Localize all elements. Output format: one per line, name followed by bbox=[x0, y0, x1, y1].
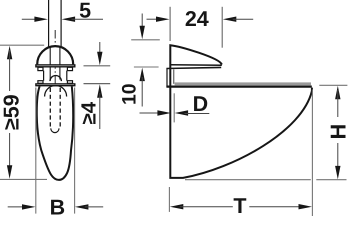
left view: screw slot lines inside dome bbox=[50, 47, 60, 80]
dimension T: line with inside arrows pointing outward bbox=[170, 204, 312, 209]
dimension 24: arrows outside bbox=[147, 17, 254, 22]
svg-text:H: H bbox=[327, 124, 350, 140]
left view: vertical centerline (dash-dot) bbox=[54, 30, 56, 166]
dimension &ge;59: top extension line bbox=[0, 44, 44, 46]
dimension D: extension line bbox=[173, 93, 175, 122]
dimension 24: left extension line bbox=[169, 7, 171, 41]
side view: body top edge bbox=[166, 85, 311, 87]
side view: body outline with concave underside curve bbox=[170, 66, 312, 178]
left view: small arch in neck bbox=[50, 76, 61, 82]
left view: body bullet outline bbox=[37, 86, 73, 180]
left view: grommet dome behind bar2 bbox=[45, 86, 67, 97]
dimension &ge;4: arrows outside bbox=[97, 42, 102, 129]
dimension D: right arrow pointing left + leader underline bbox=[175, 110, 210, 115]
svg-text:B: B bbox=[50, 196, 66, 217]
dimension 5: extension = stem lines; arrows outside bbox=[22, 17, 103, 22]
dimension T: right extension line bbox=[311, 90, 313, 217]
dimension H: top extension line bbox=[319, 84, 347, 86]
dimension T: left extension line bbox=[168, 187, 170, 212]
dimension 10: arrows outside bbox=[140, 14, 145, 107]
dimension &ge;4: upper extension tick bbox=[84, 65, 111, 67]
left view: tongue/stem lines (width 5) bbox=[49, 0, 62, 48]
left view: neck walls bbox=[44, 71, 67, 81]
svg-text:T: T bbox=[233, 194, 246, 216]
side view: slot top line bbox=[166, 67, 221, 68]
dimension &ge;59: vertical line with inside arrows bbox=[7, 46, 12, 179]
svg-text:D: D bbox=[193, 92, 209, 116]
dimension H: vertical line with inside arrows bbox=[335, 86, 340, 180]
side view: top jaw fin bbox=[170, 45, 222, 66]
svg-text:5: 5 bbox=[79, 0, 91, 22]
dimension H: bottom extension line bbox=[185, 179, 347, 181]
dimension B: right extension line bbox=[74, 88, 76, 214]
svg-text:≥59: ≥59 bbox=[0, 94, 24, 130]
left view: dome cap bbox=[37, 46, 73, 64]
dimension B: left extension line bbox=[35, 88, 37, 214]
svg-text:24: 24 bbox=[185, 7, 209, 31]
left view: hidden hole bottom arc bbox=[51, 128, 59, 132]
dimension 10: lower extension line bbox=[134, 66, 159, 68]
dimension &ge;4: lower extension tick bbox=[84, 83, 111, 85]
side view: wall lip edge bbox=[166, 69, 168, 88]
dimension &ge;59: bottom extension line bbox=[0, 178, 47, 180]
left view: hidden screw hole dashed lines bbox=[50, 88, 60, 127]
left view: lower flange bar2 bbox=[36, 84, 75, 86]
svg-text:10: 10 bbox=[119, 83, 141, 105]
side view: slot bottom gray seat bbox=[175, 82, 311, 85]
side view: jaw underside line bbox=[170, 64, 222, 67]
left view: tabs below bar1 bbox=[38, 67, 73, 70]
dimension B: arrows outside bbox=[8, 204, 104, 209]
left view: collar tabs above bar2 bbox=[38, 81, 73, 84]
dimension D: left arrow pointing right at body edge bbox=[140, 110, 171, 115]
svg-text:≥4: ≥4 bbox=[77, 101, 100, 124]
left view: upper flange bar1 bbox=[36, 65, 75, 67]
side view: slot inner edge bbox=[173, 69, 175, 84]
dimension 24: right extension line bbox=[221, 7, 223, 48]
dimension 10: upper extension line bbox=[131, 39, 160, 41]
